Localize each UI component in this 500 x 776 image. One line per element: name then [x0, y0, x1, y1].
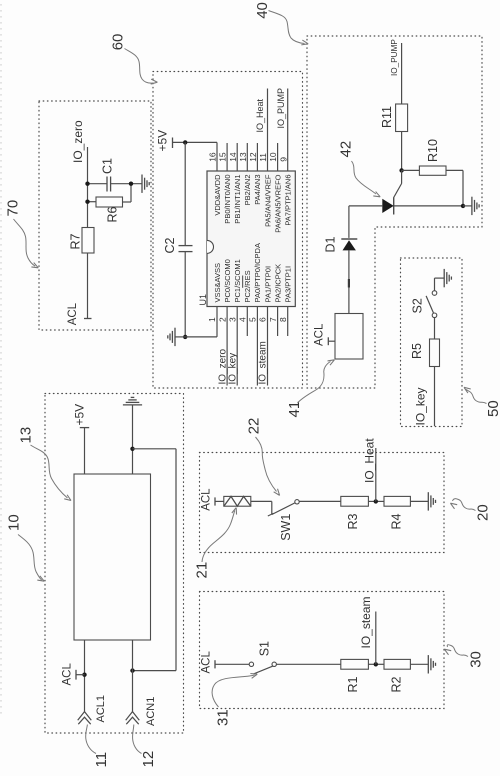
svg-text:PC1/SCOM1: PC1/SCOM1: [233, 259, 242, 302]
svg-text:+5V: +5V: [156, 130, 170, 152]
svg-text:50: 50: [485, 400, 500, 417]
svg-text:40: 40: [254, 2, 271, 19]
svg-text:ACL: ACL: [201, 651, 213, 674]
svg-text:IO_steam: IO_steam: [258, 341, 269, 384]
svg-text:R6: R6: [106, 206, 120, 222]
svg-text:IO_PUMP: IO_PUMP: [276, 88, 286, 129]
svg-text:IO_PUMP: IO_PUMP: [390, 39, 399, 76]
svg-text:IO_Heat: IO_Heat: [363, 438, 377, 483]
svg-text:R5: R5: [410, 343, 424, 359]
svg-text:15: 15: [218, 152, 228, 162]
svg-text:ACN1: ACN1: [145, 697, 157, 726]
svg-text:ACL: ACL: [201, 488, 213, 511]
svg-text:IO_key: IO_key: [414, 387, 428, 425]
svg-text:IO_key: IO_key: [227, 353, 238, 385]
svg-text:R2: R2: [389, 676, 403, 692]
svg-text:IO_Heat: IO_Heat: [255, 98, 265, 132]
svg-text:10: 10: [6, 514, 23, 531]
svg-text:42: 42: [338, 141, 355, 158]
svg-text:+5V: +5V: [73, 404, 87, 426]
svg-text:60: 60: [110, 34, 127, 51]
svg-text:ACL1: ACL1: [95, 695, 107, 723]
svg-text:13: 13: [18, 427, 35, 444]
svg-text:S2: S2: [410, 298, 424, 313]
svg-text:8: 8: [278, 317, 288, 322]
svg-text:ACL: ACL: [67, 302, 79, 325]
svg-text:PC0/SCOM0: PC0/SCOM0: [223, 259, 232, 302]
svg-text:5: 5: [248, 317, 258, 322]
svg-text:PB2/AN2: PB2/AN2: [243, 175, 252, 206]
svg-text:PB0/INT0/AN0: PB0/INT0/AN0: [223, 175, 232, 224]
svg-text:S1: S1: [258, 641, 272, 656]
svg-text:R3: R3: [346, 513, 360, 529]
svg-text:IO_zero: IO_zero: [71, 120, 85, 163]
svg-text:12: 12: [248, 152, 258, 162]
svg-text:16: 16: [208, 152, 218, 162]
svg-text:13: 13: [238, 152, 248, 162]
svg-text:PB1/INT1/AN1: PB1/INT1/AN1: [233, 175, 242, 224]
svg-text:11: 11: [258, 153, 268, 162]
svg-text:PC2/RES: PC2/RES: [243, 270, 252, 302]
svg-text:PA3/PTP1I: PA3/PTP1I: [284, 266, 293, 303]
svg-text:R7: R7: [69, 233, 83, 249]
svg-text:3: 3: [227, 317, 237, 322]
svg-text:R11: R11: [380, 106, 394, 128]
svg-text:6: 6: [258, 317, 268, 322]
svg-text:1: 1: [207, 317, 217, 322]
svg-text:11: 11: [93, 752, 110, 768]
svg-text:21: 21: [194, 562, 211, 579]
svg-text:U1: U1: [198, 294, 208, 306]
svg-text:C1: C1: [101, 158, 115, 174]
svg-text:SW1: SW1: [279, 514, 293, 541]
svg-text:70: 70: [5, 200, 22, 217]
svg-text:30: 30: [468, 651, 485, 668]
svg-text:PA1/PTP0I: PA1/PTP0I: [263, 266, 272, 303]
svg-text:VDD&AVDD: VDD&AVDD: [213, 174, 222, 216]
svg-text:C2: C2: [163, 237, 177, 253]
svg-text:IO_steam: IO_steam: [359, 596, 373, 648]
svg-text:22: 22: [246, 418, 263, 435]
svg-text:14: 14: [228, 152, 238, 162]
svg-text:ACL: ACL: [313, 323, 325, 346]
svg-text:20: 20: [475, 504, 492, 521]
svg-text:PA4/AN3: PA4/AN3: [253, 175, 262, 205]
svg-text:7: 7: [268, 317, 278, 322]
svg-text:R4: R4: [389, 513, 403, 529]
svg-text:9: 9: [278, 157, 288, 162]
svg-text:PA2/ICPCK: PA2/ICPCK: [273, 264, 282, 303]
svg-text:41: 41: [286, 401, 303, 418]
svg-text:31: 31: [215, 709, 232, 726]
svg-text:R10: R10: [426, 139, 440, 162]
svg-text:PA5/AN4/VREF: PA5/AN4/VREF: [263, 174, 272, 227]
svg-text:12: 12: [140, 751, 157, 768]
svg-text:2: 2: [217, 317, 227, 322]
svg-text:4: 4: [238, 317, 248, 322]
svg-text:PA0/PTP0/ICPDA: PA0/PTP0/ICPDA: [253, 243, 262, 302]
svg-text:PA6/AN5/VREFO: PA6/AN5/VREFO: [273, 174, 282, 232]
svg-text:ACL: ACL: [61, 663, 73, 686]
svg-text:10: 10: [268, 152, 278, 162]
svg-text:VSS&AVSS: VSS&AVSS: [213, 263, 222, 302]
svg-text:R1: R1: [346, 676, 360, 692]
svg-text:PA7/PTP1/AN6: PA7/PTP1/AN6: [284, 175, 293, 226]
svg-text:D1: D1: [323, 236, 337, 252]
